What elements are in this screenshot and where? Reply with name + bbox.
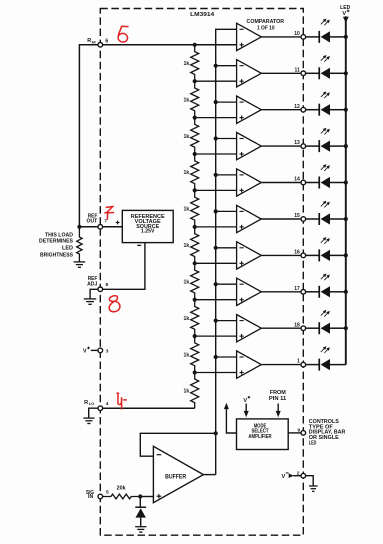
svg-text:1 OF 10: 1 OF 10 (257, 25, 275, 31)
LED 4 emission arrows (321, 128, 330, 135)
wire buffer output (203, 474, 215, 476)
wire RLO row to ladder (103, 407, 195, 409)
resistor R11 20k (103, 485, 141, 499)
ground REF ADJ (84, 299, 97, 304)
svg-text:1k: 1k (184, 316, 190, 322)
wire RHI external to left rail (79, 45, 98, 227)
IC package outline (dashed border) LM3914 (100, 9, 303, 536)
wire V+ stub (91, 349, 98, 351)
pin V+ label (83, 347, 90, 355)
node LED bus junction 3 (344, 108, 348, 112)
wire junction to buffer +input (140, 496, 153, 498)
svg-text:LM3914: LM3914 (190, 12, 214, 18)
svg-text:COMPARATOR: COMPARATOR (247, 19, 285, 25)
node ladder tap 9 (193, 334, 197, 338)
pin 1 output (297, 359, 306, 367)
resistor R1 1k ladder (184, 45, 199, 81)
node load junction (77, 225, 81, 229)
pin 14 output (294, 177, 305, 185)
LED 2 (306, 67, 346, 79)
node signal junction 6 (214, 209, 218, 213)
pin 7 REF OUT (98, 219, 107, 230)
pin 5 SIG IN (98, 490, 109, 499)
svg-text:1k: 1k (184, 352, 190, 358)
node LED bus junction 8 (344, 290, 348, 294)
LED 6 emission arrows (321, 201, 330, 208)
node feedback junction (214, 431, 218, 435)
note THIS LOAD DETERMINES LED BRIGHTNESS (39, 232, 74, 258)
svg-text:V: V (83, 349, 87, 355)
reference voltage source U12 (122, 210, 173, 242)
wire reference box to pin 8 (103, 243, 145, 290)
wire -input stub comparator U4 (216, 138, 237, 140)
node LED bus junction 7 (344, 253, 348, 257)
resistor R8 1k ladder (184, 300, 199, 336)
svg-text:1k: 1k (184, 97, 190, 103)
node signal junction 5 (214, 173, 218, 177)
node LED bus junction 2 (344, 71, 348, 75)
resistor R10 1k ladder bottom (184, 373, 199, 409)
svg-text:3: 3 (106, 349, 109, 355)
LED 6 (306, 213, 346, 225)
load resistor RL (77, 227, 82, 262)
node LED bus junction 5 (344, 180, 348, 184)
wire pin7 to reference box (103, 226, 123, 228)
LED 9 (306, 322, 346, 334)
node ladder tap 10 (193, 370, 197, 374)
resistor R6 1k ladder (184, 227, 199, 263)
comparator U5 (195, 169, 302, 196)
pin REF OUT label (87, 214, 98, 225)
wire V+ arrow into mode select (244, 404, 249, 418)
node ladder tap 7 (193, 261, 197, 265)
resistor R3 1k ladder (184, 118, 199, 154)
svg-text:1k: 1k (184, 134, 190, 140)
svg-text:PIN 11: PIN 11 (269, 396, 286, 402)
node ladder tap 2 (193, 79, 197, 83)
pin RHI label (87, 38, 95, 45)
pin 11 output (295, 67, 306, 75)
node ladder tap 5 (193, 188, 197, 192)
wire FROM PIN 11 arrow into mode select (276, 404, 281, 418)
comparator U4 (195, 132, 302, 159)
node ladder tap 4 (193, 152, 197, 156)
svg-text:V: V (281, 474, 285, 480)
node signal junction 3 (214, 100, 218, 104)
wire pin 4 to ground (89, 408, 98, 418)
svg-text:HI: HI (92, 39, 96, 44)
svg-text:ADJ: ADJ (87, 281, 97, 287)
pin 10 output (294, 31, 305, 39)
node ladder tap 8 (193, 298, 197, 302)
resistor R4 1k ladder (184, 154, 199, 190)
reference - terminal (137, 244, 141, 246)
comparator U10 (195, 351, 302, 378)
svg-text:LED: LED (62, 245, 73, 251)
wire buffer feedback (140, 433, 215, 456)
wire -input stub comparator U8 (216, 283, 237, 285)
resistor R7 1k ladder (184, 263, 199, 299)
red annotation 7 (104, 207, 114, 220)
comparator U3 (195, 96, 302, 123)
svg-text:8: 8 (106, 282, 109, 288)
wire mode select output arrow (224, 403, 237, 433)
pin 15 output (294, 213, 305, 221)
ground RLO (83, 418, 94, 423)
node ladder tap 6 (193, 225, 197, 229)
pin 4 RLO (98, 401, 109, 411)
node signal junction 2 (214, 64, 218, 68)
pin 17 output (294, 286, 305, 294)
wire mode select to pin 9 (288, 432, 301, 434)
wire -input stub comparator U5 (216, 174, 237, 176)
resistor R5 1k ladder (184, 190, 199, 227)
LED 3 emission arrows (321, 91, 330, 98)
svg-text:1: 1 (297, 359, 300, 365)
LED 8 emission arrows (321, 274, 330, 281)
pin 13 output (294, 140, 305, 148)
svg-text:LED: LED (309, 441, 317, 447)
svg-text:9: 9 (298, 428, 301, 434)
LED 5 (306, 177, 346, 189)
svg-text:1.25V: 1.25V (141, 229, 155, 235)
svg-text:THIS LOAD: THIS LOAD (45, 232, 73, 238)
node signal junction 4 (214, 136, 218, 140)
wire -input stub comparator U6 (216, 210, 237, 212)
comparator label 1 OF 10 (247, 19, 285, 31)
red annotation 4 (116, 393, 126, 409)
node LED bus junction 1 (344, 35, 348, 39)
svg-text:1k: 1k (184, 170, 190, 176)
comparator U7 (195, 242, 302, 269)
wire pin 7 to load junction (79, 226, 98, 228)
pin 6 RHI (98, 39, 108, 48)
label V+ mode input (243, 396, 250, 404)
resistor R2 1k ladder (184, 81, 199, 117)
LED 8 (306, 286, 346, 298)
wire -input stub comparator U10 (216, 356, 237, 358)
node LED bus junction 4 (344, 144, 348, 148)
label FROM PIN 11 (269, 390, 286, 402)
svg-text:AMPLIFIER: AMPLIFIER (248, 434, 271, 440)
comparator U9 (195, 315, 302, 342)
reference + terminal (116, 221, 120, 225)
svg-text:17: 17 (294, 286, 300, 292)
svg-text:LO: LO (89, 401, 95, 406)
svg-text:1k: 1k (184, 61, 190, 67)
svg-text:4: 4 (106, 401, 109, 407)
node signal junction 10 (214, 355, 218, 359)
LED 1 emission arrows (321, 19, 330, 26)
svg-text:18: 18 (294, 322, 300, 328)
svg-text:13: 13 (294, 140, 300, 146)
svg-text:DETERMINES: DETERMINES (39, 238, 74, 244)
svg-text:1k: 1k (184, 207, 190, 213)
LED 7 (306, 249, 346, 261)
svg-text:12: 12 (294, 104, 300, 110)
LED 7 emission arrows (321, 237, 330, 244)
pin V- label (281, 473, 288, 480)
red annotation 6 (118, 26, 129, 42)
svg-text:15: 15 (294, 213, 300, 219)
resistor R9 1k ladder (184, 336, 199, 372)
LED 3 (306, 104, 346, 116)
wire buffer output signal line (216, 29, 237, 474)
LED 9 emission arrows (321, 310, 330, 317)
ground diode (135, 527, 146, 532)
LED 2 emission arrows (321, 55, 330, 62)
wire -input stub comparator U9 (216, 320, 237, 322)
pin REF ADJ label (87, 276, 97, 287)
node signal junction 8 (214, 282, 218, 286)
LED 10 emission arrows (321, 346, 330, 353)
node ladder tap 1 (193, 43, 197, 47)
wire V- arrow to pin 2 (289, 473, 301, 478)
svg-text:14: 14 (294, 177, 300, 183)
node ladder tap 3 (193, 116, 197, 120)
red annotation 8 (109, 296, 120, 312)
node LED bus junction 9 (344, 326, 348, 330)
node LED bus junction 6 (344, 217, 348, 221)
ground V- (309, 486, 318, 491)
comparator U2 (195, 60, 302, 87)
wire -input stub comparator U2 (216, 65, 237, 67)
pin 2 V- (297, 470, 306, 478)
svg-text:1k: 1k (184, 388, 190, 394)
svg-text:5: 5 (106, 490, 109, 496)
svg-text:BUFFER: BUFFER (165, 474, 187, 480)
svg-text:R: R (84, 400, 88, 406)
svg-text:1k: 1k (184, 280, 190, 286)
node signal input junction (138, 494, 142, 498)
svg-text:11: 11 (295, 67, 301, 73)
ground load (74, 262, 86, 267)
node signal junction 7 (214, 246, 218, 250)
svg-text:20k: 20k (117, 485, 126, 491)
wire pin 2 to ground (306, 476, 314, 486)
LED 4 (306, 140, 346, 152)
comparator U6 (195, 205, 302, 232)
pin 12 output (294, 104, 305, 112)
wire RHI row to ladder top and comparator U1 +input (103, 44, 237, 46)
pin 16 output (294, 250, 305, 258)
pin 18 output (294, 322, 305, 330)
pin 8 REF ADJ (98, 282, 109, 292)
wire LED V+ bus (343, 16, 349, 364)
diode D1 input clamp (135, 497, 146, 527)
node signal junction 9 (214, 319, 218, 323)
wire pin 8 to ground (90, 289, 98, 298)
op-amp A1 buffer (153, 446, 203, 502)
svg-text:IN: IN (88, 494, 94, 500)
comparator U8 (195, 278, 302, 305)
pin 9 mode select (298, 428, 306, 436)
LED 5 emission arrows (321, 164, 330, 171)
wire -input stub comparator U3 (216, 101, 237, 103)
pin 3 V+ (98, 348, 109, 354)
comparator U1 (237, 23, 302, 50)
svg-text:OUT: OUT (87, 218, 98, 224)
svg-text:10: 10 (294, 31, 300, 37)
svg-text:1k: 1k (184, 243, 190, 249)
amplifier U11 mode select (237, 419, 289, 450)
svg-text:2: 2 (297, 470, 300, 476)
svg-text:V: V (243, 398, 247, 404)
part label LM3914 (190, 12, 214, 18)
pin RLO label (84, 400, 94, 406)
LED 10 (306, 359, 346, 371)
wire -input stub comparator U7 (216, 247, 237, 249)
svg-text:BRIGHTNESS: BRIGHTNESS (40, 252, 74, 258)
note CONTROLS TYPE OF DISPLAY (309, 419, 346, 447)
pin SIG IN label (86, 490, 94, 500)
LED 1 (306, 31, 346, 43)
LED V+ supply label (340, 5, 350, 17)
svg-text:6: 6 (105, 39, 108, 45)
svg-text:16: 16 (294, 250, 300, 256)
